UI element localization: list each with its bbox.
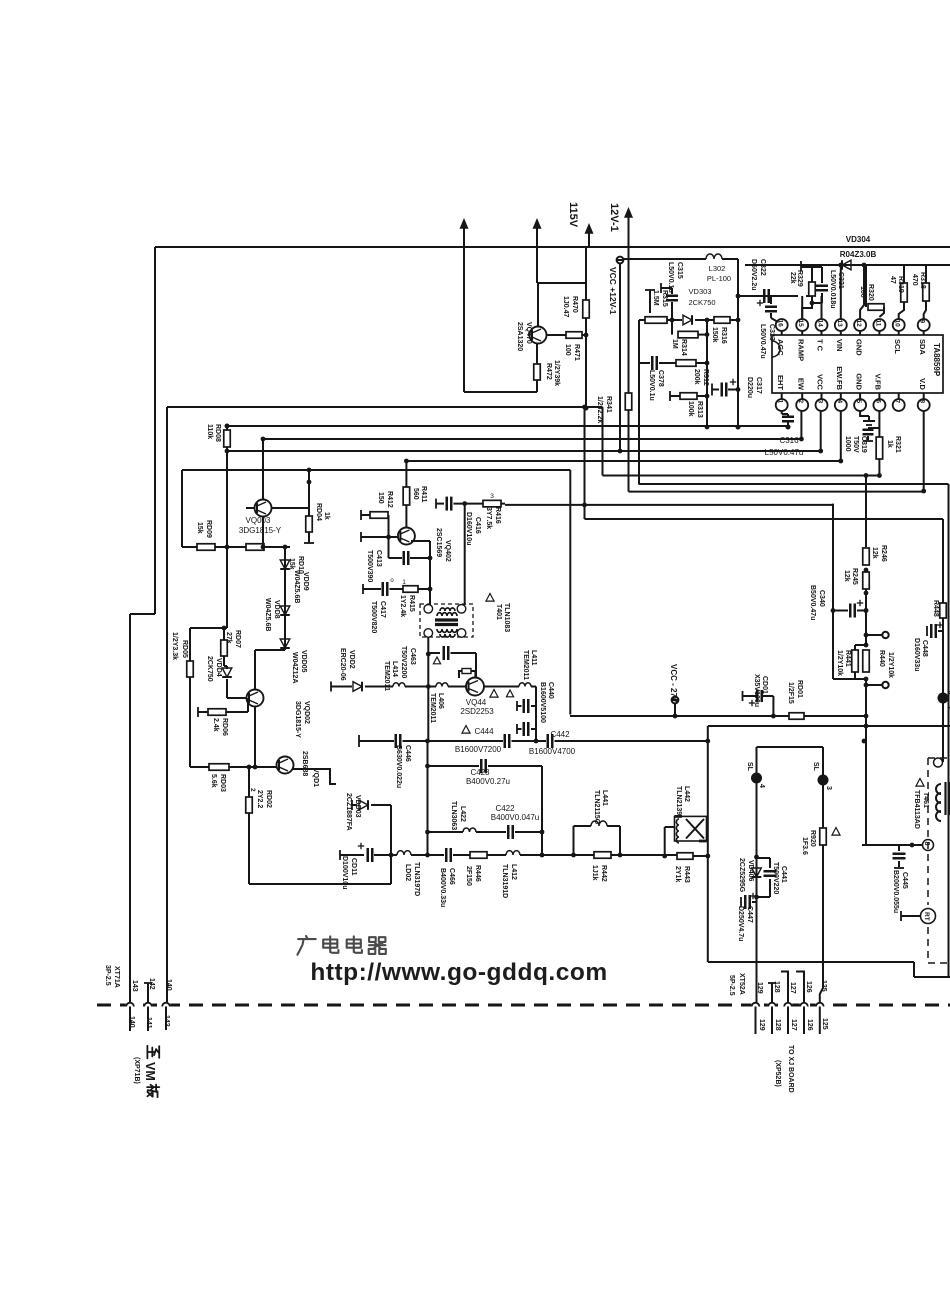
svg-text:TLN2115G: TLN2115G <box>593 790 600 825</box>
svg-text:2CZ1887FA: 2CZ1887FA <box>345 793 352 831</box>
svg-text:http://www.go-gddq.com: http://www.go-gddq.com <box>310 959 607 986</box>
svg-text:T401: T401 <box>495 604 502 620</box>
svg-text:100: 100 <box>859 286 866 298</box>
svg-text:AGC: AGC <box>776 339 785 356</box>
svg-text:1k: 1k <box>323 512 330 520</box>
svg-text:11: 11 <box>874 320 881 327</box>
svg-text:B630V0.022u: B630V0.022u <box>395 745 402 788</box>
svg-text:8: 8 <box>919 400 926 404</box>
svg-text:140: 140 <box>128 1016 135 1028</box>
svg-text:TLN2139: TLN2139 <box>675 786 682 815</box>
svg-text:B1600V7200: B1600V7200 <box>455 745 502 754</box>
svg-text:L442: L442 <box>683 786 690 802</box>
svg-text:C416: C416 <box>474 517 481 534</box>
svg-text:1/2F15: 1/2F15 <box>787 682 794 704</box>
svg-text:3Y7.5k: 3Y7.5k <box>485 507 492 529</box>
svg-text:VDD8: VDD8 <box>273 600 280 619</box>
svg-text:12: 12 <box>855 320 862 328</box>
svg-text:B1600V4700: B1600V4700 <box>529 747 576 756</box>
svg-text:L411: L411 <box>530 650 537 666</box>
svg-text:2SA1320: 2SA1320 <box>516 322 523 351</box>
svg-text:RD01: RD01 <box>796 680 803 698</box>
svg-text:R315: R315 <box>661 290 668 307</box>
svg-text:TO XJ BOARD: TO XJ BOARD <box>787 1045 794 1093</box>
svg-text:C441: C441 <box>780 866 787 883</box>
svg-text:XT52A: XT52A <box>738 973 745 995</box>
svg-text:13: 13 <box>836 320 843 328</box>
svg-text:C466: C466 <box>448 868 455 885</box>
svg-text:TFB4113AD: TFB4113AD <box>913 790 920 829</box>
svg-text:V.D: V.D <box>918 378 927 390</box>
svg-text:3DG1815-Y: 3DG1815-Y <box>294 701 301 738</box>
svg-text:L422: L422 <box>459 806 466 822</box>
svg-text:2F150: 2F150 <box>465 866 472 886</box>
svg-text:TEM2011: TEM2011 <box>522 650 529 680</box>
svg-text:SDA: SDA <box>918 339 927 355</box>
svg-text:B200V0.055u: B200V0.055u <box>892 870 899 913</box>
svg-text:R472: R472 <box>545 363 552 380</box>
svg-text:115V: 115V <box>567 202 579 228</box>
svg-text:1/2Y39k: 1/2Y39k <box>553 360 560 386</box>
svg-text:TLN3197D: TLN3197D <box>413 862 420 896</box>
svg-text:1/2Y3.3k: 1/2Y3.3k <box>171 632 178 660</box>
svg-text:C413: C413 <box>375 550 382 567</box>
svg-text:128: 128 <box>773 981 780 993</box>
svg-text:2SD2253: 2SD2253 <box>460 707 494 716</box>
svg-text:2Y2.2: 2Y2.2 <box>256 790 263 808</box>
svg-text:R316: R316 <box>720 327 727 344</box>
svg-text:R329: R329 <box>796 270 803 287</box>
svg-text:R471: R471 <box>573 344 580 361</box>
svg-text:D250V4.7u: D250V4.7u <box>737 906 744 941</box>
svg-text:C445: C445 <box>901 872 908 889</box>
svg-text:T C: T C <box>816 339 825 352</box>
svg-text:(XP71B): (XP71B) <box>133 1057 140 1084</box>
svg-text:C442: C442 <box>550 730 570 739</box>
svg-text:3P-2.5: 3P-2.5 <box>104 965 111 986</box>
svg-text:VCC +12V-1: VCC +12V-1 <box>608 267 618 315</box>
svg-text:GND: GND <box>854 339 863 356</box>
svg-text:TEM2011: TEM2011 <box>429 693 436 723</box>
svg-text:16: 16 <box>777 320 784 328</box>
svg-text:VDD05: VDD05 <box>300 650 307 673</box>
svg-text:2: 2 <box>249 788 256 792</box>
svg-text:129: 129 <box>756 982 763 994</box>
svg-text:SL: SL <box>746 762 753 772</box>
svg-text:TLN1083: TLN1083 <box>503 603 510 632</box>
svg-text:R446: R446 <box>474 865 481 882</box>
svg-text:R448: R448 <box>932 600 939 617</box>
svg-text:VQ003: VQ003 <box>246 516 271 525</box>
svg-text:200k: 200k <box>693 369 700 385</box>
svg-text:L50V0.47u: L50V0.47u <box>759 324 766 359</box>
svg-text:5: 5 <box>855 400 862 404</box>
svg-text:125: 125 <box>820 980 827 992</box>
svg-text:TA8859P: TA8859P <box>932 343 941 377</box>
svg-text:4: 4 <box>836 400 843 404</box>
svg-text:VQ44: VQ44 <box>466 698 487 707</box>
svg-text:1J0.47: 1J0.47 <box>562 296 569 318</box>
svg-text:C378: C378 <box>657 370 664 387</box>
svg-text:R245: R245 <box>851 568 858 585</box>
svg-text:560: 560 <box>412 488 419 500</box>
svg-text:1J1k: 1J1k <box>591 865 598 881</box>
svg-text:D160V10u: D160V10u <box>465 512 472 545</box>
svg-text:2CK750: 2CK750 <box>688 298 715 307</box>
svg-text:470: 470 <box>911 274 918 286</box>
svg-text:4: 4 <box>758 784 765 788</box>
svg-text:12k: 12k <box>871 547 878 559</box>
svg-text:W04Z5.6B: W04Z5.6B <box>293 570 300 603</box>
svg-text:R246: R246 <box>880 545 887 562</box>
svg-text:L50V0.47u: L50V0.47u <box>765 448 804 457</box>
svg-text:B400V0.047u: B400V0.047u <box>491 813 540 822</box>
svg-text:VQD1: VQD1 <box>312 768 319 787</box>
svg-text:D160V33u: D160V33u <box>913 638 920 671</box>
svg-text:15: 15 <box>797 320 804 328</box>
svg-text:142: 142 <box>148 978 155 990</box>
svg-text:C463: C463 <box>409 648 416 665</box>
svg-text:W04Z12A: W04Z12A <box>291 652 298 684</box>
svg-text:T50V2200: T50V2200 <box>400 646 407 678</box>
svg-text:R441: R441 <box>844 650 851 667</box>
svg-text:EW: EW <box>796 378 805 391</box>
svg-text:C315: C315 <box>676 262 683 279</box>
svg-text:1M: 1M <box>671 339 678 349</box>
svg-text:2CK750: 2CK750 <box>206 656 213 682</box>
svg-text:100k: 100k <box>687 401 694 417</box>
svg-text:RD05: RD05 <box>181 640 188 658</box>
svg-text:2SC1569: 2SC1569 <box>435 528 442 557</box>
svg-text:8: 8 <box>923 842 930 846</box>
svg-text:100: 100 <box>564 344 571 356</box>
svg-text:B400V0.27u: B400V0.27u <box>466 777 510 786</box>
svg-text:2: 2 <box>946 706 950 710</box>
svg-text:VIN: VIN <box>835 339 844 352</box>
svg-text:C423: C423 <box>470 768 490 777</box>
svg-text:2CZ5295G: 2CZ5295G <box>738 858 745 893</box>
svg-text:126: 126 <box>806 1019 813 1031</box>
svg-text:L302: L302 <box>709 264 726 273</box>
svg-text:127: 127 <box>790 1019 797 1031</box>
svg-text:R416: R416 <box>494 507 501 524</box>
svg-text:L412: L412 <box>510 864 517 880</box>
svg-text:SCL: SCL <box>893 339 902 354</box>
svg-text:VDD03: VDD03 <box>354 795 361 818</box>
svg-text:1F3.6: 1F3.6 <box>801 837 808 855</box>
svg-text:T500V220: T500V220 <box>772 862 779 894</box>
svg-text:EHT: EHT <box>776 375 785 390</box>
svg-text:B400V0.33u: B400V0.33u <box>439 868 446 907</box>
svg-text:C317: C317 <box>755 377 762 394</box>
svg-text:VDD9: VDD9 <box>302 572 309 591</box>
svg-text:RAMP: RAMP <box>796 339 805 361</box>
svg-text:C446: C446 <box>404 745 411 762</box>
svg-text:R415: R415 <box>408 595 415 612</box>
svg-text:LD02: LD02 <box>404 864 411 881</box>
svg-text:T500V820: T500V820 <box>370 601 377 633</box>
svg-text:1: 1 <box>402 579 406 586</box>
svg-text:9: 9 <box>919 320 926 324</box>
svg-text:SL: SL <box>812 762 819 772</box>
svg-text:126: 126 <box>805 981 812 993</box>
svg-text:L50V0.1u: L50V0.1u <box>648 370 655 401</box>
svg-text:10: 10 <box>894 320 901 328</box>
svg-text:R412: R412 <box>386 491 393 508</box>
svg-text:5.6k: 5.6k <box>210 774 217 788</box>
svg-text:VDD4: VDD4 <box>215 658 222 677</box>
svg-text:GND: GND <box>854 373 863 390</box>
svg-text:R313: R313 <box>696 401 703 418</box>
svg-text:CD01: CD01 <box>761 676 768 694</box>
svg-text:VCC: VCC <box>816 374 825 390</box>
svg-text:VD406: VD406 <box>747 860 754 882</box>
svg-text:C448: C448 <box>921 640 928 657</box>
svg-text:12V-1: 12V-1 <box>608 203 620 232</box>
svg-text:L414: L414 <box>391 661 398 677</box>
svg-text:14: 14 <box>817 320 824 328</box>
svg-text:TEM2011: TEM2011 <box>383 661 390 691</box>
svg-text:D100V10u: D100V10u <box>341 856 348 889</box>
svg-text:C447: C447 <box>746 906 753 923</box>
svg-text:X35V100u: X35V100u <box>753 674 760 707</box>
svg-text:27k: 27k <box>225 632 232 644</box>
svg-text:125: 125 <box>821 1018 828 1030</box>
svg-text:B1600V5100: B1600V5100 <box>539 682 546 723</box>
svg-text:15k: 15k <box>196 522 203 534</box>
svg-text:110k: 110k <box>206 424 213 439</box>
svg-text:1/2Y10k: 1/2Y10k <box>836 650 843 676</box>
svg-text:TLN3191D: TLN3191D <box>501 864 508 898</box>
svg-text:ERC20-06: ERC20-06 <box>339 648 346 681</box>
svg-text:R319: R319 <box>897 276 904 293</box>
svg-text:T461: T461 <box>922 792 929 808</box>
svg-text:47: 47 <box>889 276 896 284</box>
svg-text:R321: R321 <box>894 436 901 453</box>
svg-text:VQD02: VQD02 <box>303 701 310 724</box>
svg-text:C322: C322 <box>759 259 766 276</box>
svg-text:143: 143 <box>131 980 138 992</box>
svg-text:C444: C444 <box>474 727 494 736</box>
svg-text:R470: R470 <box>571 296 578 313</box>
svg-text:XT71A: XT71A <box>113 966 120 988</box>
svg-text:1k: 1k <box>886 440 893 448</box>
svg-text:R314: R314 <box>680 339 687 356</box>
svg-text:T50V: T50V <box>852 436 859 453</box>
svg-text:12k: 12k <box>843 570 850 582</box>
svg-text:VD303: VD303 <box>689 287 712 296</box>
svg-text:D220u: D220u <box>746 377 753 398</box>
svg-text:B50V0.47u: B50V0.47u <box>809 585 816 620</box>
svg-text:EW.FB: EW.FB <box>835 366 844 390</box>
svg-text:2Y1k: 2Y1k <box>674 866 681 882</box>
svg-text:L50V0.018u: L50V0.018u <box>829 270 836 309</box>
svg-text:140: 140 <box>165 979 172 991</box>
svg-text:R411: R411 <box>420 486 427 502</box>
svg-text:3DG1815-Y: 3DG1815-Y <box>239 526 282 535</box>
svg-text:RD03: RD03 <box>219 774 226 792</box>
svg-text:22k: 22k <box>789 272 796 284</box>
svg-text:RT: RT <box>923 912 930 921</box>
svg-text:L441: L441 <box>601 790 608 806</box>
svg-text:7: 7 <box>894 400 901 404</box>
svg-text:L50V0.1u: L50V0.1u <box>667 262 674 293</box>
svg-text:3: 3 <box>490 493 494 500</box>
svg-text:VQ470: VQ470 <box>525 322 532 344</box>
svg-text:RD07: RD07 <box>234 630 241 648</box>
svg-text:C340: C340 <box>818 590 825 607</box>
svg-text:W04Z5.6B: W04Z5.6B <box>264 598 271 631</box>
svg-text:R312: R312 <box>702 369 709 386</box>
svg-text:C417: C417 <box>379 601 386 618</box>
svg-text:D50V2.2u: D50V2.2u <box>750 259 757 291</box>
svg-text:R04Z3.0B: R04Z3.0B <box>840 250 877 259</box>
svg-text:VM: VM <box>143 1062 157 1081</box>
svg-text:VDD2: VDD2 <box>348 650 355 669</box>
svg-text:C319: C319 <box>860 436 867 453</box>
svg-text:3: 3 <box>825 786 832 790</box>
svg-text:TLN3063: TLN3063 <box>450 801 457 830</box>
svg-text:RD06: RD06 <box>221 718 228 736</box>
svg-text:1000: 1000 <box>844 436 851 452</box>
svg-text:1/2Y10k: 1/2Y10k <box>887 652 894 678</box>
svg-text:R320: R320 <box>867 284 874 301</box>
svg-text:R318: R318 <box>919 272 926 289</box>
svg-text:R440: R440 <box>878 650 885 667</box>
svg-text:R442: R442 <box>600 865 607 882</box>
svg-text:VCC - 27V: VCC - 27V <box>669 664 678 703</box>
svg-text:CD11: CD11 <box>350 858 357 876</box>
svg-text:127: 127 <box>789 982 796 994</box>
svg-text:C316: C316 <box>779 436 799 445</box>
svg-text:RD02: RD02 <box>265 790 272 808</box>
svg-text:1.5M: 1.5M <box>652 290 659 306</box>
svg-text:RD09: RD09 <box>205 520 212 538</box>
svg-text:C440: C440 <box>547 682 554 699</box>
svg-text:5P-2.5: 5P-2.5 <box>728 975 735 996</box>
svg-text:RD04: RD04 <box>315 503 322 521</box>
svg-text:1: 1 <box>777 400 784 404</box>
svg-text:2.4k: 2.4k <box>212 718 219 732</box>
svg-text:142: 142 <box>163 1015 170 1027</box>
svg-text:129: 129 <box>758 1019 765 1031</box>
svg-text:(XP52B): (XP52B) <box>774 1060 781 1087</box>
svg-text:V.FB: V.FB <box>874 374 883 391</box>
svg-text:R920: R920 <box>809 830 816 847</box>
svg-text:SL: SL <box>946 688 950 698</box>
svg-text:R341: R341 <box>605 396 612 413</box>
svg-text:128: 128 <box>774 1019 781 1031</box>
svg-text:R443: R443 <box>683 866 690 883</box>
svg-text:L406: L406 <box>437 693 444 709</box>
svg-text:2: 2 <box>797 400 804 404</box>
svg-text:6: 6 <box>874 400 881 404</box>
svg-text:RD08: RD08 <box>214 424 221 442</box>
svg-text:141: 141 <box>145 1017 152 1029</box>
svg-text:3: 3 <box>817 400 824 404</box>
svg-text:150: 150 <box>377 492 384 504</box>
svg-text:VQ402: VQ402 <box>444 540 451 562</box>
svg-text:2SB688: 2SB688 <box>301 751 308 776</box>
svg-text:T500V390: T500V390 <box>366 550 373 582</box>
svg-text:VD304: VD304 <box>846 235 871 244</box>
svg-text:PL-100: PL-100 <box>707 274 731 283</box>
svg-text:1Y2.4k: 1Y2.4k <box>399 595 406 617</box>
svg-text:C323: C323 <box>768 324 775 341</box>
svg-text:C422: C422 <box>495 804 515 813</box>
svg-text:150k: 150k <box>711 327 718 343</box>
